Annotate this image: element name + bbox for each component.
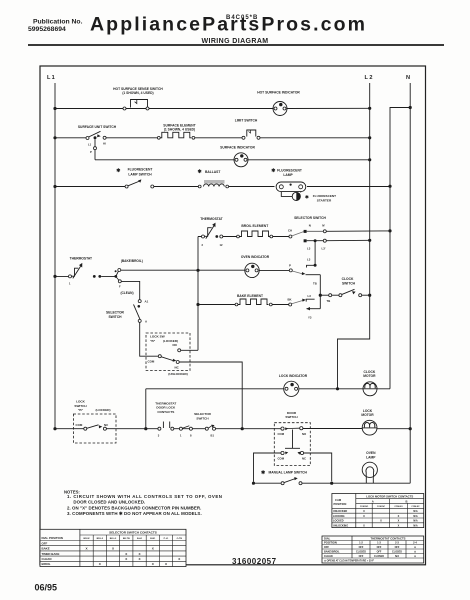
surface element label: [163, 124, 195, 132]
svg-text:⊙: ⊙: [414, 555, 416, 558]
svg-text:SELECTOR SWITCH: SELECTOR SWITCH: [294, 216, 326, 220]
svg-text:"B": "B": [150, 339, 156, 343]
junction dot L1 bottom row: [53, 427, 56, 430]
junction dot L2 surface indicator row: [368, 158, 371, 161]
svg-text:LAMP SWITCH: LAMP SWITCH: [128, 172, 152, 176]
svg-text:OFF: OFF: [42, 541, 48, 545]
svg-text:BR-W: BR-W: [84, 538, 91, 540]
selector contact BK blade: [289, 299, 306, 306]
svg-text:5995268694: 5995268694: [28, 26, 66, 33]
thermostat door lock contacts: [158, 422, 174, 431]
svg-text:LAMP: LAMP: [366, 455, 376, 459]
svg-text:NO: NO: [302, 432, 307, 436]
junction dot L1 row1: [53, 107, 56, 110]
svg-text:L 2: L 2: [365, 75, 373, 81]
junction dot bake row: [196, 303, 199, 306]
svg-text:UNLOCKED: UNLOCKED: [333, 510, 347, 513]
manual lamp switch: [281, 477, 302, 485]
svg-text:CLEAN: CLEAN: [42, 557, 52, 561]
svg-text:MOTOR: MOTOR: [363, 374, 376, 378]
svg-text:1: 1: [69, 282, 71, 286]
lock switch B upper label: [150, 335, 178, 343]
svg-text:SWITCH: SWITCH: [285, 415, 298, 419]
selector blade A1 to A: [134, 304, 142, 322]
svg-text:CLOSED: CLOSED: [374, 555, 384, 558]
header rule: [28, 44, 444, 46]
bus L2 wire: [338, 83, 370, 389]
thermostat contacts table: [322, 536, 424, 563]
selector switch label left: [106, 311, 125, 320]
svg-text:N': N': [322, 224, 325, 228]
svg-text:L3: L3: [308, 294, 312, 298]
wire door switch middle with bar: [285, 430, 300, 449]
junction dot L2 row2: [368, 136, 371, 139]
svg-text:COM-NC: COM-NC: [377, 506, 386, 508]
svg-text:OFF: OFF: [359, 546, 364, 549]
lamp hot surface indicator: [273, 102, 287, 116]
terminal P surface unit switch: [94, 147, 97, 150]
svg-text:CLOSED: CLOSED: [392, 550, 402, 553]
lock switch B upper dashed box: [146, 333, 190, 371]
svg-text:THERMOSTAT CONTACTS: THERMOSTAT CONTACTS: [370, 537, 405, 541]
lock switch B lower contacts: [84, 425, 107, 430]
bus L1 wire: [54, 83, 56, 429]
svg-text:SURFACE INDICATOR: SURFACE INDICATOR: [220, 146, 255, 150]
lock motor label: [361, 409, 374, 417]
svg-text:DIAL POSITION: DIAL POSITION: [42, 536, 63, 540]
svg-text:DIAL: DIAL: [324, 537, 331, 541]
junction dot N row1: [409, 106, 412, 109]
svg-text:OFF: OFF: [395, 546, 400, 549]
svg-text:COM-NO: COM-NO: [360, 506, 369, 508]
svg-text:TIMED BAKE: TIMED BAKE: [42, 552, 60, 556]
svg-text:BR-L2: BR-L2: [97, 538, 104, 540]
selector contact F clean: [117, 277, 122, 282]
selector L3 bracket lower: [306, 299, 314, 301]
svg-text:BK-L2: BK-L2: [110, 538, 117, 540]
svg-text:LOCKING: LOCKING: [333, 515, 345, 518]
internal neutral return wire x=390 elbow to N: [390, 108, 410, 389]
wire row2 surface element circuit: [55, 137, 370, 139]
lamp oven indicator: [245, 263, 259, 277]
svg-text:L3: L3: [307, 258, 311, 262]
bus N wire: [409, 83, 411, 483]
contact pair mid: [179, 426, 192, 430]
junction dot L1 fluorescent row: [53, 185, 56, 188]
selector contact P with blade: [289, 269, 320, 275]
svg-text:NC: NC: [175, 366, 180, 370]
junction dot main row at broil vertical: [196, 269, 199, 272]
svg-text:FLUORESCENT: FLUORESCENT: [128, 168, 153, 172]
svg-text:"B": "B": [78, 408, 84, 412]
limit switch: [242, 130, 260, 139]
svg-text:CONTACTS: CONTACTS: [157, 410, 174, 414]
svg-text:L1: L1: [88, 143, 92, 147]
svg-text:B-A1: B-A1: [137, 537, 143, 540]
fluorescent lamp switch label: [116, 168, 152, 177]
inductor ballast: [198, 180, 228, 188]
junction dot NC feed bottom row: [241, 427, 244, 430]
svg-text:3: 3: [158, 434, 160, 438]
svg-text:B4C05*B: B4C05*B: [226, 15, 258, 21]
svg-text:BROIL ELEMENT: BROIL ELEMENT: [241, 224, 268, 228]
svg-text:COM-NO: COM-NO: [394, 506, 403, 508]
svg-text:L3: L3: [307, 247, 311, 251]
lock motor switch contacts table: [332, 494, 424, 528]
svg-text:(UNLOCKED): (UNLOCKED): [168, 372, 188, 376]
svg-text:(LOCKED): (LOCKED): [95, 408, 110, 412]
svg-text:1-2: 1-2: [359, 541, 363, 545]
svg-text:N: N: [309, 224, 311, 228]
wire selector L3 stub: [307, 241, 317, 268]
selector contact A1: [138, 300, 141, 303]
wire main oven row: [55, 270, 289, 276]
border frame: [40, 66, 426, 565]
svg-text:A1: A1: [145, 300, 149, 304]
wire corner down to bottom row: [145, 389, 147, 429]
selector switch bottom label: [194, 412, 212, 420]
svg-text:1: 1: [180, 434, 182, 438]
svg-text:(CLEAN): (CLEAN): [120, 291, 133, 295]
svg-text:12: 12: [220, 243, 223, 247]
svg-text:OVEN INDICATOR: OVEN INDICATOR: [241, 255, 270, 259]
svg-text:THERMOSTAT: THERMOSTAT: [200, 217, 222, 221]
svg-text:N/A: N/A: [413, 520, 418, 523]
lamp oven lamp: [362, 462, 377, 483]
svg-text:✱: ✱: [116, 168, 121, 174]
oven lamp label: [366, 451, 376, 459]
wire clean selector path: [121, 281, 139, 299]
svg-text:(BAKE/BROIL): (BAKE/BROIL): [121, 259, 143, 263]
svg-text:⊙: ⊙: [414, 546, 416, 549]
resistor broil element: [237, 231, 273, 238]
svg-text:06/95: 06/95: [35, 583, 58, 593]
svg-text:2. ON "X" DENOTES BACKGUARD CO: 2. ON "X" DENOTES BACKGUARD CONNECTOR PI…: [67, 505, 201, 510]
svg-text:3. COMPONENTS WITH ✱ DO NOT AP: 3. COMPONENTS WITH ✱ DO NOT APPEAR ON AL…: [67, 511, 202, 516]
fluorescent starter label: [305, 194, 336, 202]
wire drop to surface indicator row: [94, 139, 96, 160]
watermark AppliancePartsPros.com: [90, 14, 367, 36]
svg-text:SELECTOR SWITCH CONTACTS: SELECTOR SWITCH CONTACTS: [109, 531, 157, 535]
svg-text:A: A: [372, 499, 374, 503]
wire main bottom row: [55, 428, 410, 430]
motor lock motor: [362, 420, 377, 435]
svg-text:⊙ OPENS AT CLEAN TEMPERATURE +: ⊙ OPENS AT CLEAN TEMPERATURE + 35°F: [324, 560, 375, 563]
hot surface sense switch label: [113, 87, 163, 95]
svg-text:COM: COM: [148, 360, 155, 364]
svg-text:L3': L3': [322, 247, 326, 251]
svg-text:CLEAN: CLEAN: [324, 555, 333, 558]
junction dot return selector N row: [388, 229, 391, 232]
svg-text:P: P: [289, 264, 291, 268]
junction dot L1 row2: [53, 136, 56, 139]
motor clock motor: [363, 382, 377, 396]
svg-text:(1 SHOWN, 4 USED): (1 SHOWN, 4 USED): [164, 128, 195, 132]
junction dot lamp row right: [330, 482, 333, 485]
svg-text:N/A: N/A: [413, 524, 418, 527]
svg-text:SWITCH: SWITCH: [342, 282, 356, 286]
svg-text:BAKE/BROIL: BAKE/BROIL: [324, 550, 340, 553]
svg-text:B1: B1: [211, 434, 215, 438]
svg-text:N/A: N/A: [413, 515, 418, 518]
svg-text:2-3: 2-3: [395, 541, 399, 545]
svg-text:WIRING DIAGRAM: WIRING DIAGRAM: [201, 38, 268, 45]
wire lock indicator row: [146, 388, 390, 390]
thermostat oven contacts: [202, 223, 223, 239]
svg-text:F: F: [119, 285, 121, 289]
wire surface indicator row: [95, 159, 370, 161]
svg-text:Publication No.: Publication No.: [33, 19, 83, 26]
svg-text:LOCK: LOCK: [363, 409, 373, 413]
svg-text:LIMIT SWITCH: LIMIT SWITCH: [235, 119, 258, 123]
svg-text:N/A: N/A: [413, 510, 418, 513]
svg-text:MOTOR: MOTOR: [361, 413, 374, 417]
svg-text:TB: TB: [327, 299, 331, 303]
svg-text:COM-NC: COM-NC: [411, 506, 420, 508]
clock switch: [320, 289, 369, 296]
junction dot L2 row1: [368, 107, 371, 110]
wire A to lock switch COM: [140, 322, 159, 356]
notes block: [64, 490, 222, 517]
door switch label: [285, 411, 298, 419]
clock motor label: [363, 370, 376, 378]
svg-text:NC: NC: [302, 456, 306, 460]
door switch upper contacts: [281, 427, 303, 431]
lock switch B lower label: [74, 400, 110, 413]
svg-text:LAMP: LAMP: [283, 173, 293, 177]
svg-text:SURFACE UNIT SWITCH: SURFACE UNIT SWITCH: [78, 125, 117, 129]
selector contacts bottom: [205, 425, 215, 431]
svg-text:(1 SHOWN, 4 USED): (1 SHOWN, 4 USED): [122, 91, 153, 95]
svg-text:FLUORESCENT: FLUORESCENT: [277, 169, 302, 173]
svg-text:BROIL: BROIL: [42, 562, 51, 566]
svg-text:OVEN: OVEN: [366, 451, 376, 455]
door switch dashed box: [274, 423, 310, 466]
svg-text:BK-TB: BK-TB: [123, 538, 130, 540]
junction dot L2 jog lock row: [336, 387, 339, 390]
svg-text:A: A: [145, 320, 148, 324]
junction dot TB clock row: [319, 294, 322, 297]
selector contact row L3: [304, 239, 370, 242]
door switch lower contacts: [281, 451, 304, 454]
publication number block: [28, 19, 83, 34]
svg-text:1. CIRCUIT SHOWN WITH ALL CONT: 1. CIRCUIT SHOWN WITH ALL CONTROLS SET T…: [67, 494, 222, 499]
svg-text:OFF: OFF: [377, 550, 382, 553]
junction dot N lock motor row: [409, 427, 412, 430]
svg-text:L1: L1: [47, 75, 56, 81]
svg-text:P: P: [90, 150, 92, 154]
svg-text:✱: ✱: [198, 169, 203, 175]
thermostat door lock contacts label: [155, 402, 176, 414]
fluorescent starter: [281, 192, 300, 201]
svg-text:✱: ✱: [271, 168, 276, 174]
manual lamp switch label: [261, 470, 307, 476]
junction dot L1 main row: [53, 275, 56, 278]
svg-text:BALLAST: BALLAST: [205, 170, 220, 174]
fluorescent lamp label: [271, 168, 302, 177]
svg-text:Y3: Y3: [308, 316, 312, 320]
wire broil row: [198, 236, 289, 238]
selector contact row N: [292, 230, 390, 236]
surface unit switch: [86, 131, 106, 139]
wire selector TB vertical: [319, 275, 321, 309]
wire bake row: [198, 304, 289, 306]
ballast label: [198, 169, 221, 175]
fluorescent lamp switch: [125, 179, 154, 188]
wire fluorescent row: [55, 186, 390, 188]
svg-text:SWITCH: SWITCH: [108, 315, 122, 319]
svg-text:LOCKED: LOCKED: [333, 520, 344, 523]
lock switch B lower dashed box: [73, 414, 116, 443]
lamp lock indicator: [284, 381, 299, 396]
svg-text:CH: CH: [288, 229, 292, 233]
wire oven lamp row: [254, 482, 411, 484]
svg-text:NO: NO: [173, 343, 178, 347]
svg-text:1-3: 1-3: [377, 541, 381, 545]
wire Y3 stub with arrow: [306, 307, 320, 310]
svg-text:STARTER: STARTER: [317, 198, 332, 202]
svg-text:SELECTOR: SELECTOR: [106, 311, 125, 315]
svg-text:✱: ✱: [305, 194, 309, 199]
svg-text:B-B1: B-B1: [150, 538, 156, 540]
svg-text:316002057: 316002057: [232, 557, 277, 566]
resistor surface element: [157, 132, 194, 139]
svg-text:NC: NC: [104, 423, 109, 427]
svg-text:LOCK INDICATOR: LOCK INDICATOR: [279, 374, 308, 378]
junction dot lamp row left: [252, 482, 255, 485]
svg-text:COM: COM: [278, 432, 285, 436]
svg-text:OFF: OFF: [359, 555, 364, 558]
wire lower com to lamp branch: [254, 453, 281, 482]
wire lower nc to lamp branch: [304, 453, 332, 481]
wire NC to main bottom row: [179, 362, 242, 429]
selector contact B bake/broil: [114, 269, 120, 278]
model number text: [226, 15, 258, 21]
svg-text:N/A: N/A: [395, 555, 399, 558]
svg-text:POSITION: POSITION: [334, 502, 347, 506]
junction dot L2 clock row: [368, 294, 371, 297]
svg-text:TB: TB: [313, 282, 317, 286]
svg-text:✱: ✱: [261, 470, 266, 476]
svg-text:BAKE: BAKE: [42, 547, 50, 551]
svg-text:B: B: [405, 499, 407, 503]
svg-text:CLOSED: CLOSED: [356, 550, 366, 553]
vertical wire from broil row to lock switch NO: [197, 237, 199, 351]
wire NO up to broil vertical: [181, 349, 198, 351]
lock switch B upper contacts: [158, 349, 180, 364]
svg-text:POSITION: POSITION: [324, 541, 337, 545]
title WIRING DIAGRAM: [201, 38, 268, 45]
selector switch contacts table: [40, 529, 186, 566]
svg-text:P-L1: P-L1: [164, 538, 170, 540]
svg-text:8: 8: [190, 434, 192, 438]
svg-text:⊙: ⊙: [414, 550, 416, 553]
junction dot return fluorescent row: [388, 185, 391, 188]
resistor bake element: [235, 299, 272, 306]
wire row1: [55, 107, 370, 109]
clock switch label: [342, 277, 356, 286]
svg-text:THERMOSTAT: THERMOSTAT: [70, 257, 92, 261]
svg-text:CAM: CAM: [335, 498, 342, 502]
svg-text:N: N: [406, 75, 410, 81]
svg-text:CLOCK: CLOCK: [342, 277, 354, 281]
fluorescent lamp: [276, 182, 306, 192]
svg-text:HI: HI: [103, 142, 106, 146]
svg-text:BAKE ELEMENT: BAKE ELEMENT: [237, 294, 263, 298]
svg-text:COM: COM: [76, 423, 83, 427]
svg-text:OFF: OFF: [377, 546, 382, 549]
selector contact CH: [289, 235, 292, 238]
svg-text:2-4: 2-4: [413, 541, 417, 545]
svg-text:SWITCH: SWITCH: [196, 416, 209, 420]
lamp surface indicator: [234, 153, 248, 167]
svg-text:MANUAL LAMP SWITCH: MANUAL LAMP SWITCH: [269, 471, 308, 475]
svg-text:DOOR CLOSED AND UNLOCKED.: DOOR CLOSED AND UNLOCKED.: [73, 500, 145, 505]
svg-text:HOT SURFACE INDICATOR: HOT SURFACE INDICATOR: [257, 91, 300, 95]
svg-text:O-TB: O-TB: [177, 538, 183, 540]
svg-text:OFF: OFF: [324, 546, 329, 549]
svg-text:LOCK MOTOR SWITCH CONTACTS: LOCK MOTOR SWITCH CONTACTS: [366, 494, 413, 498]
junction dot L2 selector row: [368, 239, 371, 242]
thermostat left: [69, 263, 102, 279]
svg-text:COM: COM: [278, 456, 285, 460]
svg-text:UNLOCKING: UNLOCKING: [333, 524, 348, 527]
svg-text:BK: BK: [288, 298, 292, 302]
junction dot lock indicator feed: [144, 427, 147, 430]
hot surface sense switch: [123, 100, 149, 111]
svg-text:2: 2: [202, 243, 204, 247]
